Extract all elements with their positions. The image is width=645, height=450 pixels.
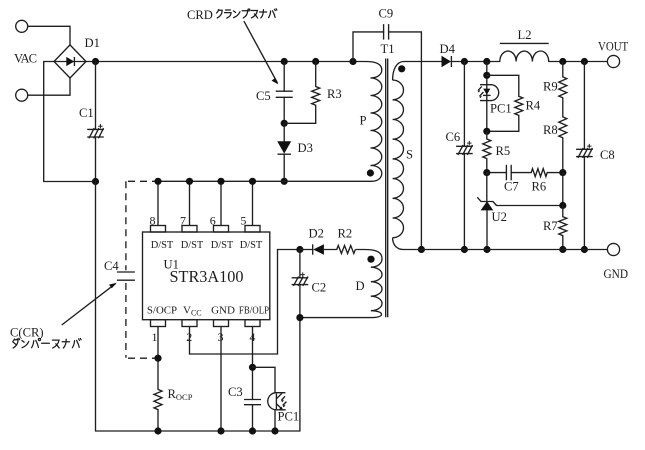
polarity dot D [367,256,374,263]
diode D2 [313,244,324,254]
polarity dot P [367,169,374,176]
wire R9 top [562,62,564,77]
node R8/R6 [559,169,566,176]
wire C6 bottom [463,154,465,250]
wire R5 bottom [486,159,488,173]
wire U2 cathode [486,173,488,201]
wire bridge minus down-left [44,62,96,182]
resistor R9 [559,77,567,98]
svg-text:L2: L2 [518,28,532,42]
node VCC [296,246,303,253]
svg-text:D: D [356,279,365,293]
terminal GND [607,243,619,255]
node PC1 branch top [483,58,490,65]
svg-text:R5: R5 [496,144,511,158]
wire drain rail [158,180,372,182]
wire D2 to R2 [324,249,337,251]
svg-text:PC1: PC1 [278,409,300,423]
wire secondary ground rail [404,249,608,251]
wire D3 to drain rail [283,154,285,181]
op IC U1 body [143,232,270,320]
svg-text:7: 7 [180,214,186,228]
node FB branch [249,364,256,371]
resistor R3 [312,87,320,106]
capacitor C7 [506,165,511,181]
IC pin stubs top [151,226,166,233]
capacitor C9 [384,24,389,39]
wire R3 top [315,62,317,87]
wire pin3 GND down [220,327,222,432]
annotation arrow to C4 [62,284,116,325]
svg-text:C8: C8 [600,148,615,162]
svg-text:R6: R6 [532,180,547,194]
svg-text:R2: R2 [338,226,353,240]
wire R4 bottom [487,115,519,131]
label katakana kuranpusunaba [217,9,223,17]
wire U2 anode [486,210,488,249]
node ref junction [559,202,566,209]
wire C9 left leg [353,32,384,62]
wire L2 to VOUT [549,61,608,63]
node C6 bottom [461,246,468,253]
node R7 rail [559,246,566,253]
node C8 top [581,58,588,65]
resistor ROCP [154,389,162,409]
svg-text:D3: D3 [298,141,313,155]
wire C2 bottom [299,285,301,431]
svg-text:8: 8 [150,214,156,228]
wire C5 top [283,62,285,92]
node U2 anode rail [483,246,490,253]
dashed snubber C4 branch [125,181,127,270]
svg-text:PC1: PC1 [490,102,512,116]
wire pin4 FB down [252,327,254,400]
svg-text:S: S [406,148,413,162]
bridge rectifier D1 [54,45,86,78]
wire primary ground down [96,182,300,432]
wire divider mid [562,173,564,206]
capacitor C8 [576,144,593,158]
wire VCC column C2 [299,250,301,278]
polarity dot S [398,65,405,72]
wire R4 branch top [487,75,519,96]
svg-text:D/ST: D/ST [240,239,263,251]
nodes drain rail pins [154,178,161,185]
diode D4 [442,56,452,67]
terminal AC-top [16,20,28,32]
resistor R7 [559,217,567,236]
transformer core [385,59,387,318]
svg-text:6: 6 [210,214,216,228]
resistor R4 [515,96,523,115]
svg-text:R8: R8 [543,123,558,137]
wire D4 to L2 [451,61,499,63]
svg-text:CRD: CRD [187,8,213,22]
svg-text:R7: R7 [543,219,558,233]
svg-text:D/ST: D/ST [151,239,174,251]
diode D3 [277,141,291,154]
resistor R6 [531,169,547,177]
transformer T1 primary winding P [366,62,382,182]
node R5/C7/U2 [483,169,490,176]
svg-text:GND: GND [211,305,235,317]
node R9 top [559,58,566,65]
terminal AC-bottom [16,89,28,101]
node C9 left [349,58,356,65]
svg-text:GND: GND [604,267,629,281]
wire C9 right leg [389,32,422,250]
node D4 cathode [461,58,468,65]
transformer T1 aux winding D [300,249,382,317]
wire C5 bottom [283,97,285,123]
svg-text:R9: R9 [543,79,558,93]
node ROCP ground [154,427,161,434]
wire U2 ref [497,205,563,207]
node R3/C5 junction [281,120,288,127]
resistor R8 [559,117,567,138]
svg-text:C4: C4 [104,259,119,273]
svg-text:R4: R4 [526,99,541,113]
svg-text:C9: C9 [379,6,394,20]
wire pin2 VCC route [190,250,300,355]
wire C1 column top [95,62,97,130]
annotation arrow to C5 [244,21,278,83]
wire ROCP bottom [157,410,159,431]
wire FB to PC1 transistor [253,367,276,392]
wire C8 column [583,62,585,150]
node C1 minus [92,178,99,185]
node R3 top [312,58,319,65]
wire to R5 [486,131,488,139]
wires pins 8..5 to drain rail [157,181,159,225]
svg-text:P: P [360,113,367,127]
node D3 drain rail [281,178,288,185]
svg-text:VOUT: VOUT [598,40,628,54]
node PC1/R4 bottom [483,128,490,135]
wire C7 to R6 [511,172,531,174]
wire secondary to D4 [404,61,442,63]
inductor L2 [500,51,549,62]
wire PC1 emitter down [274,410,276,431]
capacitor C4 [117,272,135,280]
svg-text:5: 5 [240,214,246,228]
svg-text:D2: D2 [309,226,324,240]
svg-text:C5: C5 [256,89,271,103]
shunt regulator U2 [477,197,496,210]
svg-text:C1: C1 [79,106,94,120]
wire R7 bottom [562,236,564,250]
terminal VOUT [607,55,619,67]
wire R8 bottom [562,138,564,173]
wire R6 to node [547,172,563,174]
svg-text:C7: C7 [504,180,519,194]
wire VCC node to D2 [300,249,313,251]
node bridge plus [92,58,99,65]
resistor R5 [483,139,491,159]
node PC1 ground [271,427,278,434]
wire C6 column [463,62,465,147]
svg-text:U2: U2 [492,210,507,224]
svg-text:C(CR): C(CR) [10,326,44,340]
node aux winding return [296,314,303,321]
optocoupler PC1 LED [478,85,499,101]
svg-text:C6: C6 [446,130,461,144]
wire R3 bottom to junction [284,105,316,123]
svg-text:D/ST: D/ST [181,239,204,251]
svg-text:C3: C3 [228,385,243,399]
transformer T1 secondary winding S [393,62,404,250]
node C9 to secondary rail [418,246,425,253]
wire to R7 [562,206,564,217]
svg-text:T1: T1 [381,42,395,56]
svg-text:R3: R3 [327,87,342,101]
svg-text:D/ST: D/ST [211,239,234,251]
node pin1 snubber [154,355,161,362]
optocoupler PC1 phototransistor [268,393,287,410]
capacitor C2 [292,272,309,286]
IC pin stubs bottom [151,320,166,327]
node C3 ground [249,427,256,434]
wire C3 bottom [252,405,254,431]
svg-text:FB/OLP: FB/OLP [239,305,269,317]
wire C8 bottom [583,157,585,250]
node C8 rail [581,246,588,253]
wire C1 bottom to minus node [95,137,97,182]
capacitor C6 [456,141,473,155]
wire AC-bottom to bridge [28,78,70,95]
node pin3 ground [217,427,224,434]
wire node to C7 [487,172,507,174]
wire AC-top to bridge [28,26,70,45]
wire main positive rail [86,61,366,63]
svg-text:D4: D4 [440,42,456,56]
node C5 top [281,58,288,65]
svg-text:D1: D1 [85,36,100,50]
svg-text:1: 1 [152,330,158,344]
wire R9-R8 [562,98,564,117]
node R4 branch [483,72,490,79]
svg-text:VAC: VAC [14,52,37,66]
wire pin1 down [157,327,159,390]
label katakana danpasunaba [13,338,20,348]
wire junction to D3 [283,123,285,141]
resistor R2 [337,246,356,254]
capacitor C5 [276,91,293,97]
svg-text:S/OCP: S/OCP [147,305,177,317]
svg-text:STR3A100: STR3A100 [170,267,244,286]
wire PC1 column [486,62,488,132]
capacitor C1 [87,124,104,138]
capacitor C3 [244,400,261,405]
svg-text:C2: C2 [312,280,327,294]
